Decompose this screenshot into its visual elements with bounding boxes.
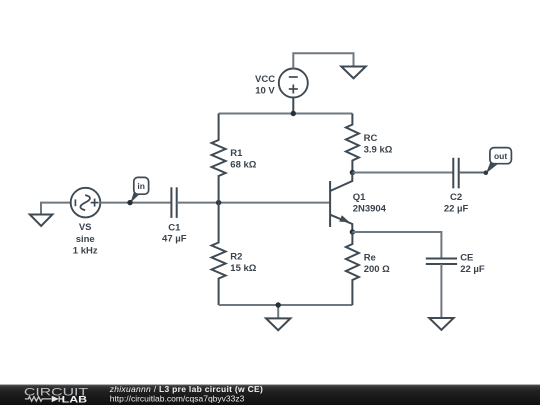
svg-text:in: in (137, 181, 145, 191)
ground (top right) (341, 67, 365, 79)
svg-text:2N3904: 2N3904 (353, 203, 387, 214)
svg-text:sine: sine (76, 234, 95, 245)
node out flag (486, 148, 511, 174)
svg-text:LAB: LAB (62, 395, 87, 405)
node dot base junction (216, 200, 221, 205)
resistor R2 (212, 203, 226, 305)
voltage source VS (71, 188, 101, 218)
label RC / 3.9 kOhm (364, 133, 393, 155)
svg-text:22 µF: 22 µF (460, 264, 485, 275)
svg-text:200 Ω: 200 Ω (364, 264, 390, 275)
svg-text:VS: VS (79, 222, 92, 233)
label CE / 22 uF (460, 252, 485, 275)
svg-text:C2: C2 (450, 192, 462, 203)
resistor R1 (212, 114, 226, 203)
svg-text:22 µF: 22 µF (444, 203, 469, 214)
svg-text:1 kHz: 1 kHz (73, 245, 98, 256)
wire: CE bottom to ground (440, 264, 442, 318)
node dot VCC rail (291, 111, 296, 116)
node dot in (127, 200, 132, 205)
node dot bottom ground (276, 302, 281, 307)
svg-text:VCC: VCC (255, 74, 275, 85)
node dot emitter (350, 229, 355, 234)
label VS / sine / 1 kHz (73, 222, 98, 256)
resistor Re (346, 232, 359, 305)
svg-text:15 kΩ: 15 kΩ (230, 263, 256, 274)
ground (left of VS) (30, 215, 53, 226)
wire: collector rail to C2 (352, 172, 453, 174)
label R2 / 15 kOhm (230, 252, 256, 275)
wire: C1 to Q1 base (177, 202, 330, 204)
label VCC / 10 V (255, 74, 275, 96)
capacitor CE (426, 259, 457, 265)
svg-text:RC: RC (364, 133, 378, 144)
svg-text:R1: R1 (230, 148, 243, 159)
node in flag (130, 177, 148, 203)
logo resistor zigzag and diode (25, 396, 63, 402)
wire: C2 to out node (459, 172, 486, 174)
svg-text:out: out (494, 151, 507, 161)
voltage source VCC (279, 69, 308, 114)
wire: VCC top to ground (293, 53, 353, 68)
svg-text:Re: Re (364, 252, 376, 263)
label R1 / 68 kOhm (230, 148, 256, 170)
svg-text:68 kΩ: 68 kΩ (230, 160, 256, 171)
label C2 / 22 uF (444, 192, 469, 214)
capacitor C1 (171, 187, 176, 218)
ground (under CE) (429, 318, 453, 330)
svg-text:zhixuannn / L3 pre lab circuit: zhixuannn / L3 pre lab circuit (w CE) (109, 384, 263, 394)
svg-text:CE: CE (460, 252, 473, 263)
node dot collector (350, 170, 355, 175)
wire: top rail (219, 113, 353, 115)
svg-text:http://circuitlab.com/cqsa7qby: http://circuitlab.com/cqsa7qbyv33z3 (110, 394, 245, 404)
label C1 / 47 uF (162, 222, 187, 244)
svg-text:C1: C1 (168, 222, 181, 233)
svg-text:Q1: Q1 (353, 192, 366, 203)
wire: VS right to C1 (100, 202, 171, 204)
node dot out (484, 170, 489, 175)
svg-text:3.9 kΩ: 3.9 kΩ (364, 145, 393, 156)
wire: ground stub bottom (277, 305, 279, 318)
wire: bottom rail (219, 304, 353, 306)
svg-text:10 V: 10 V (255, 85, 275, 96)
resistor RC (346, 114, 359, 173)
svg-text:47 µF: 47 µF (162, 234, 187, 245)
label Re / 200 Ohm (364, 252, 390, 275)
svg-text:R2: R2 (230, 252, 242, 263)
wire: VS left to ground corner (41, 203, 71, 215)
transistor Q1 (330, 173, 352, 233)
wire: emitter to CE (352, 232, 441, 259)
footer bar (0, 385, 540, 405)
label Q1 / 2N3904 (353, 192, 387, 215)
capacitor C2 (453, 158, 458, 189)
ground (bottom center) (266, 318, 290, 330)
